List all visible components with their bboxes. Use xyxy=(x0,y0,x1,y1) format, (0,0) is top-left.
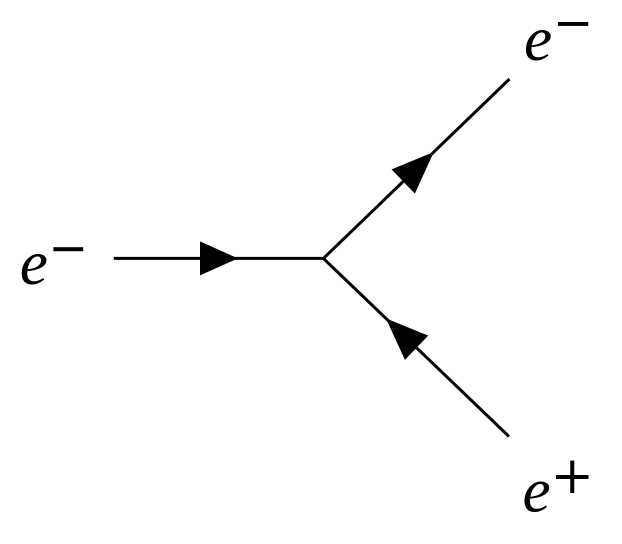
svg-text:e: e xyxy=(523,455,551,526)
arrow: positron direction xyxy=(386,318,428,360)
arrow: outgoing electron direction xyxy=(392,152,434,194)
arrow: incoming electron direction xyxy=(200,241,238,275)
wire: incoming positron propagator xyxy=(323,258,509,436)
svg-text:e: e xyxy=(20,227,48,298)
wire: incoming electron propagator xyxy=(114,257,324,260)
node: interaction vertex xyxy=(322,257,325,260)
wire: outgoing electron propagator xyxy=(323,79,509,258)
svg-text:e: e xyxy=(524,3,552,74)
label e+ (positron) xyxy=(523,455,589,526)
label e- (outgoing electron) xyxy=(524,3,588,74)
label e- (incoming electron) xyxy=(20,227,83,298)
